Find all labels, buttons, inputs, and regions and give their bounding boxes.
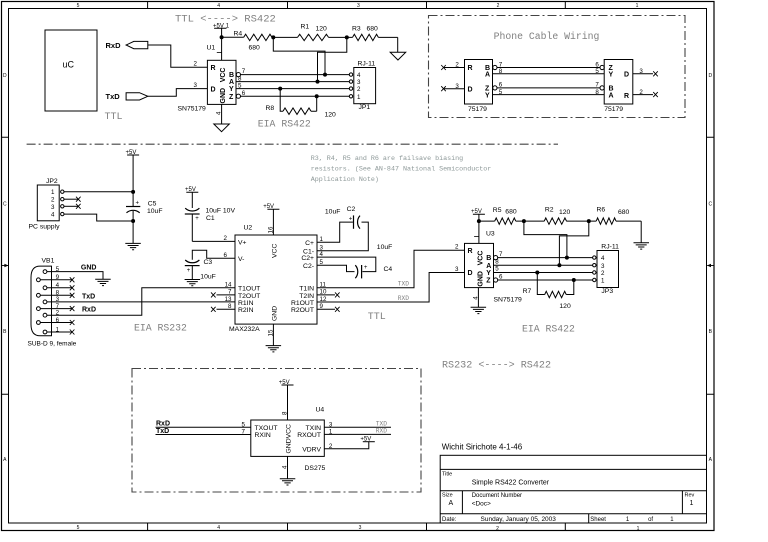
earth ground (C5) bbox=[125, 243, 141, 249]
title block bbox=[440, 455, 706, 523]
right 75179 Z bubble bbox=[600, 65, 604, 69]
svg-text:R1OUT: R1OUT bbox=[291, 300, 314, 307]
svg-text:VCC: VCC bbox=[272, 244, 279, 258]
right 75179 pin numbers bbox=[595, 61, 643, 96]
junction node C5 bottom bbox=[131, 219, 135, 223]
svg-text:2: 2 bbox=[497, 3, 500, 9]
svg-text:TXIN: TXIN bbox=[306, 425, 322, 432]
svg-text:680: 680 bbox=[367, 26, 379, 33]
U1 pin B bubble bbox=[236, 73, 240, 77]
svg-text:120: 120 bbox=[325, 112, 337, 119]
svg-text:4: 4 bbox=[357, 72, 361, 79]
wire bias node to A line (U3) bbox=[559, 221, 588, 265]
junction on B line bbox=[323, 73, 327, 77]
svg-text:Y: Y bbox=[609, 72, 614, 79]
wire U2 R2IN NC bbox=[211, 307, 235, 312]
svg-text:C2: C2 bbox=[347, 206, 356, 213]
svg-text:+5V: +5V bbox=[263, 204, 274, 210]
zone ticks right bbox=[707, 137, 714, 394]
svg-text:R1: R1 bbox=[301, 24, 310, 31]
zone ticks top bbox=[148, 2, 566, 9]
svg-text:R2: R2 bbox=[545, 207, 554, 214]
capacitor C2 bbox=[325, 206, 360, 229]
wire JP2 pin4 to C5 bottom node bbox=[64, 214, 133, 221]
wire stub R out with NC x bbox=[633, 92, 658, 97]
svg-text:1: 1 bbox=[690, 500, 694, 507]
svg-text:C+: C+ bbox=[305, 240, 314, 247]
connector VB1 SUB-D9 female bbox=[28, 266, 77, 347]
+5V power symbol (C5 rail) bbox=[126, 150, 140, 192]
uC block bbox=[45, 30, 97, 111]
resistor R6 bbox=[589, 207, 641, 225]
wire stub D out with NC x bbox=[633, 71, 658, 76]
svg-text:Wichit Sirichote 4-1-46: Wichit Sirichote 4-1-46 bbox=[442, 443, 523, 452]
svg-text:RxD: RxD bbox=[106, 41, 122, 50]
U3 pin Z bubble bbox=[494, 278, 498, 282]
svg-text:GND: GND bbox=[81, 265, 97, 272]
svg-text:2: 2 bbox=[639, 89, 643, 96]
svg-text:EIA RS422: EIA RS422 bbox=[522, 324, 575, 335]
svg-text:U3: U3 bbox=[486, 231, 495, 238]
wire U3 Y to JP3 pin2 bbox=[494, 272, 593, 274]
wire JP2 pin2 NC bbox=[64, 197, 81, 202]
resistor R7 bbox=[523, 273, 574, 311]
left 75179 Z bubble bbox=[493, 86, 497, 90]
svg-text:B: B bbox=[486, 255, 491, 262]
svg-text:Y: Y bbox=[486, 270, 491, 277]
svg-text:Sheet: Sheet bbox=[590, 517, 606, 523]
wire uC TxD to U1 pin3 bbox=[148, 89, 208, 97]
svg-text:+5V: +5V bbox=[279, 380, 290, 386]
wire VB1 pin3 TxD to U2 R1IN bbox=[47, 301, 235, 303]
RxD port arrow bbox=[126, 41, 148, 48]
+5V power symbol (U4 VCC) bbox=[279, 380, 294, 420]
svg-text:680: 680 bbox=[618, 209, 630, 216]
svg-text:R: R bbox=[211, 65, 216, 72]
svg-text:680: 680 bbox=[249, 45, 261, 52]
wire U4 TXIN right (TXD) bbox=[324, 426, 391, 428]
svg-text:13: 13 bbox=[225, 296, 232, 303]
svg-text:R2OUT: R2OUT bbox=[291, 307, 314, 314]
wire VB1 pin8 NC bbox=[40, 293, 74, 298]
svg-text:TxD: TxD bbox=[106, 92, 121, 101]
svg-text:T2IN: T2IN bbox=[299, 293, 314, 300]
capacitor C2 loop wiring bbox=[317, 222, 368, 251]
svg-text:SN75179: SN75179 bbox=[178, 106, 207, 113]
svg-text:A: A bbox=[229, 79, 234, 86]
svg-text:5: 5 bbox=[77, 525, 80, 531]
connector JP3 RJ-11 bbox=[593, 243, 620, 295]
DS275 dashed box bbox=[132, 369, 421, 493]
junction R7 on Z line bbox=[572, 278, 576, 282]
svg-text:MAX232A: MAX232A bbox=[229, 326, 260, 333]
svg-text:VCC: VCC bbox=[220, 68, 227, 83]
svg-text:RJ-11: RJ-11 bbox=[601, 243, 619, 250]
svg-text:U1: U1 bbox=[207, 45, 216, 52]
+5V power symbol (VDRV) bbox=[360, 437, 374, 443]
svg-text:+5V: +5V bbox=[360, 437, 371, 443]
connector JP2 bbox=[29, 178, 65, 231]
svg-text:+: + bbox=[195, 216, 199, 222]
centering arrow left bbox=[2, 264, 9, 268]
svg-text:A: A bbox=[485, 72, 490, 79]
svg-text:R3, R4, R5 and R6 are failsave: R3, R4, R5 and R6 are failsave biasing bbox=[311, 155, 464, 163]
svg-text:+: + bbox=[136, 201, 140, 207]
svg-text:+5V: +5V bbox=[126, 150, 137, 156]
svg-text:TXD: TXD bbox=[398, 281, 409, 288]
svg-text:+: + bbox=[364, 265, 368, 271]
svg-text:R8: R8 bbox=[266, 105, 275, 112]
svg-text:Y: Y bbox=[485, 92, 490, 99]
wire U2 V- to C3 bbox=[192, 250, 235, 260]
svg-text:C: C bbox=[708, 202, 712, 208]
svg-text:Y: Y bbox=[229, 86, 234, 93]
svg-text:C3: C3 bbox=[204, 259, 213, 266]
MAX232A U2 body bbox=[235, 235, 317, 324]
svg-text:RXD: RXD bbox=[398, 295, 409, 302]
svg-text:D: D bbox=[3, 73, 7, 79]
svg-text:RxD: RxD bbox=[156, 420, 170, 427]
svg-text:Sunday, January 05, 2003: Sunday, January 05, 2003 bbox=[481, 516, 557, 523]
wire U2 R2OUT NC bbox=[317, 307, 340, 312]
svg-text:RxD: RxD bbox=[82, 307, 96, 314]
svg-text:+: + bbox=[349, 217, 353, 223]
wire uC RxD to U1 pin2 bbox=[148, 45, 208, 67]
earth ground (U2) bbox=[266, 346, 282, 352]
svg-text:EIA RS422: EIA RS422 bbox=[258, 119, 311, 130]
svg-text:3: 3 bbox=[357, 79, 361, 86]
capacitor C1 bbox=[185, 208, 236, 242]
svg-text:Z: Z bbox=[486, 278, 491, 285]
left 75179 B bubble bbox=[493, 65, 497, 69]
connector JP1 RJ-11 bbox=[349, 60, 375, 111]
svg-text:2: 2 bbox=[194, 61, 198, 68]
svg-text:Application Note): Application Note) bbox=[311, 176, 379, 184]
svg-text:Size: Size bbox=[442, 493, 453, 499]
zone ticks bottom bbox=[148, 523, 566, 531]
node R2/R6 bbox=[587, 219, 591, 223]
svg-text:RXOUT: RXOUT bbox=[297, 432, 321, 439]
wire +5V rail to R5 bbox=[479, 220, 495, 222]
resistor R1 bbox=[273, 24, 347, 41]
svg-text:VB1: VB1 bbox=[42, 258, 55, 265]
+5V power symbol (U2 VCC) bbox=[263, 204, 279, 235]
wire U3 A to JP3 pin3 bbox=[494, 264, 593, 266]
svg-text:3: 3 bbox=[51, 204, 55, 211]
wire stub D with NC x bbox=[441, 86, 464, 91]
svg-text:JP3: JP3 bbox=[601, 288, 613, 295]
capacitor C4 bbox=[355, 265, 392, 279]
svg-text:VDRV: VDRV bbox=[302, 447, 321, 454]
wire U1 A to JP1 pin3 bbox=[236, 81, 349, 83]
svg-text:+5V: +5V bbox=[185, 187, 196, 193]
svg-text:3: 3 bbox=[194, 82, 198, 89]
svg-text:R: R bbox=[468, 65, 473, 72]
svg-text:D: D bbox=[468, 86, 473, 93]
svg-text:6: 6 bbox=[224, 252, 228, 259]
wire U2 T2OUT NC bbox=[211, 292, 235, 297]
svg-text:A: A bbox=[449, 500, 454, 507]
wire C1 to U2 V+ bbox=[192, 240, 235, 242]
svg-text:TXD: TXD bbox=[376, 420, 387, 427]
svg-text:3: 3 bbox=[601, 263, 605, 270]
wire RxD to U4 TXOUT bbox=[156, 426, 251, 428]
wire JP2 pin3 NC bbox=[64, 204, 81, 209]
centering arrow right bbox=[707, 264, 714, 268]
svg-text:R7: R7 bbox=[523, 288, 532, 295]
svg-text:R: R bbox=[624, 93, 629, 100]
earth ground (C3) bbox=[185, 280, 201, 286]
junction node C5 top bbox=[131, 190, 135, 194]
svg-text:D: D bbox=[624, 72, 629, 79]
wire U1 Y to JP1 pin2 bbox=[236, 88, 349, 90]
svg-text:1: 1 bbox=[636, 3, 639, 9]
earth ground (VB1 GND) bbox=[95, 279, 111, 285]
junction on B line (U3) bbox=[565, 256, 569, 260]
svg-text:resistors. (See AN-847 Nationa: resistors. (See AN-847 National Semicond… bbox=[311, 166, 492, 174]
svg-text:2: 2 bbox=[51, 197, 55, 204]
U3 GND wire down bbox=[477, 288, 479, 308]
svg-text:T2OUT: T2OUT bbox=[238, 293, 260, 300]
zone ticks left bbox=[2, 137, 9, 394]
wire VB1 pin1 NC bbox=[47, 330, 75, 335]
svg-text:C: C bbox=[3, 202, 7, 208]
svg-text:C2+: C2+ bbox=[301, 255, 314, 262]
svg-text:75179: 75179 bbox=[468, 106, 487, 113]
svg-text:Date:: Date: bbox=[442, 517, 457, 523]
ground triangle (R3) bbox=[390, 52, 406, 60]
svg-text:Document Number: Document Number bbox=[472, 493, 522, 499]
svg-text:2: 2 bbox=[357, 86, 361, 93]
svg-text:RXIN: RXIN bbox=[255, 432, 271, 439]
svg-text:R5: R5 bbox=[493, 207, 502, 214]
svg-text:RJ-11: RJ-11 bbox=[358, 60, 376, 67]
svg-text:D: D bbox=[708, 73, 712, 79]
svg-text:1: 1 bbox=[51, 189, 55, 196]
resistor R5 bbox=[493, 207, 524, 224]
svg-text:680: 680 bbox=[505, 209, 517, 216]
zone numbers top bbox=[77, 3, 639, 9]
wire R6 to ground bbox=[640, 221, 642, 243]
left 75179 pin numbers bbox=[455, 61, 502, 96]
wire A to Y bbox=[493, 73, 605, 75]
earth ground (R6) bbox=[634, 243, 650, 249]
svg-text:75179: 75179 bbox=[604, 106, 623, 113]
U1 VCC pin stub (rotated 1) bbox=[217, 51, 222, 53]
svg-text:Simple RS422 Converter: Simple RS422 Converter bbox=[472, 480, 550, 487]
wire VB1 pin9 NC bbox=[40, 277, 74, 282]
zone numbers bottom bbox=[77, 525, 640, 532]
svg-text:<Doc>: <Doc> bbox=[472, 501, 491, 508]
svg-text:U2: U2 bbox=[244, 225, 253, 232]
svg-text:1: 1 bbox=[329, 429, 333, 436]
wire VB1 pin5 to ground bbox=[47, 272, 103, 280]
svg-text:EIA RS232: EIA RS232 bbox=[134, 323, 187, 334]
svg-text:120: 120 bbox=[316, 26, 328, 33]
svg-text:TTL: TTL bbox=[368, 312, 386, 323]
svg-text:4: 4 bbox=[217, 525, 220, 531]
svg-text:2: 2 bbox=[224, 235, 228, 242]
resistor R3 bbox=[347, 26, 398, 41]
svg-text:Z: Z bbox=[229, 94, 234, 101]
svg-text:R3: R3 bbox=[352, 26, 361, 33]
VB1 pin numbers bbox=[56, 266, 60, 333]
right 75179 B bubble bbox=[600, 86, 604, 90]
svg-text:10uF: 10uF bbox=[325, 209, 341, 216]
wire R3 to ground bbox=[397, 37, 399, 52]
svg-text:5: 5 bbox=[242, 421, 246, 428]
wire VB1 pin6 NC bbox=[40, 320, 74, 325]
transceiver left 75179 bbox=[465, 60, 493, 114]
svg-text:RS232 <----> RS422: RS232 <----> RS422 bbox=[442, 361, 551, 372]
svg-text:C5: C5 bbox=[148, 201, 157, 208]
svg-text:GND: GND bbox=[477, 271, 484, 287]
dash-dot separator bbox=[27, 143, 558, 145]
DS275 U4 body bbox=[251, 420, 324, 456]
zone letters left bbox=[3, 73, 7, 463]
pin numbers U2 left lower bbox=[225, 281, 232, 310]
resistor R8 bbox=[266, 89, 337, 119]
wire U1 Z to JP1 pin1 bbox=[241, 95, 350, 97]
svg-text:uC: uC bbox=[63, 60, 75, 70]
wire VB1 pin7 NC bbox=[40, 306, 74, 311]
U3 pin B bubble bbox=[494, 256, 498, 260]
U4 GND wire down bbox=[287, 456, 289, 478]
op-amp U1 SN75179 body bbox=[207, 60, 236, 104]
svg-text:SN75179: SN75179 bbox=[494, 297, 523, 304]
transceiver U3 SN75179 body bbox=[465, 243, 494, 287]
svg-text:1: 1 bbox=[637, 526, 640, 532]
svg-text:2: 2 bbox=[496, 526, 499, 532]
svg-text:DS275: DS275 bbox=[305, 465, 326, 472]
svg-text:120: 120 bbox=[559, 209, 571, 216]
svg-text:5: 5 bbox=[77, 3, 80, 9]
svg-text:of: of bbox=[648, 517, 653, 523]
junction node +5V/R4 bbox=[220, 35, 224, 39]
wire Y to A bbox=[493, 94, 605, 96]
svg-text:C4: C4 bbox=[384, 266, 393, 273]
svg-text:Rev: Rev bbox=[685, 493, 695, 499]
svg-text:GND: GND bbox=[220, 88, 227, 104]
svg-text:TxD: TxD bbox=[156, 428, 169, 435]
svg-text:2: 2 bbox=[329, 443, 333, 450]
svg-text:16: 16 bbox=[267, 226, 274, 233]
Phone Cable Wiring dashed box bbox=[429, 16, 686, 118]
svg-text:10uF: 10uF bbox=[147, 208, 163, 215]
svg-text:2: 2 bbox=[455, 244, 459, 251]
svg-text:4: 4 bbox=[217, 3, 220, 9]
svg-text:5: 5 bbox=[495, 266, 499, 273]
wire U2 R1OUT to U3 D (RXD) bbox=[317, 273, 465, 303]
svg-text:T1IN: T1IN bbox=[299, 286, 314, 293]
svg-text:1: 1 bbox=[601, 278, 605, 285]
junction on A line bbox=[316, 80, 320, 84]
svg-text:10uF 10V: 10uF 10V bbox=[206, 208, 236, 215]
U1 pin Z bubble bbox=[236, 94, 240, 98]
svg-text:R1IN: R1IN bbox=[238, 300, 254, 307]
svg-text:120: 120 bbox=[559, 303, 571, 310]
wire U2 T1IN to U3 R (TXD) bbox=[317, 250, 465, 288]
svg-text:1: 1 bbox=[357, 94, 361, 101]
svg-text:TxD: TxD bbox=[82, 293, 95, 300]
ground triangle (U1) bbox=[214, 124, 230, 132]
svg-text:B: B bbox=[229, 72, 234, 79]
+5V power symbol (U3 rail) bbox=[471, 209, 485, 243]
wire VB1 pin4 NC bbox=[47, 285, 75, 290]
U2 GND wire down bbox=[272, 324, 274, 346]
svg-text:C2-: C2- bbox=[303, 263, 314, 270]
pin numbers U2 right bbox=[320, 236, 327, 310]
svg-text:PC supply: PC supply bbox=[29, 224, 61, 231]
svg-text:R2IN: R2IN bbox=[238, 307, 254, 314]
svg-text:GNDVCC: GNDVCC bbox=[285, 424, 292, 454]
svg-text:V+: V+ bbox=[238, 239, 247, 246]
svg-text:10uF: 10uF bbox=[377, 244, 393, 251]
wire TxD to U4 RXIN bbox=[156, 434, 251, 436]
svg-text:SUB-D 9, female: SUB-D 9, female bbox=[28, 341, 77, 348]
svg-text:2: 2 bbox=[601, 270, 605, 277]
svg-text:8: 8 bbox=[495, 258, 499, 265]
wire VB1 pin2 RxD to U2 T1OUT bbox=[47, 288, 235, 315]
svg-text:3: 3 bbox=[359, 525, 362, 531]
svg-text:10uF: 10uF bbox=[200, 274, 216, 281]
svg-text:4: 4 bbox=[51, 212, 55, 219]
svg-text:D: D bbox=[211, 86, 216, 93]
svg-text:V-: V- bbox=[238, 256, 244, 263]
wire Z to B bbox=[497, 87, 600, 89]
svg-text:3: 3 bbox=[357, 3, 360, 9]
wire U1 GND down bbox=[221, 104, 223, 124]
svg-text:R6: R6 bbox=[597, 207, 606, 214]
earth ground (U4) bbox=[280, 479, 296, 485]
+5V power symbol (C1) bbox=[185, 187, 198, 208]
svg-text:3: 3 bbox=[455, 266, 459, 273]
svg-text:U4: U4 bbox=[316, 407, 325, 414]
junction R8 on Y line bbox=[278, 87, 282, 91]
wire U2 T2IN NC bbox=[317, 292, 340, 297]
svg-text:8: 8 bbox=[281, 411, 288, 415]
capacitor C4 loop wiring bbox=[317, 257, 376, 272]
svg-text:C1: C1 bbox=[206, 215, 215, 222]
junction R8 on Z line bbox=[315, 94, 319, 98]
svg-text:14: 14 bbox=[225, 281, 232, 288]
wire C5 to ground bbox=[132, 221, 134, 243]
junction R7 on Y line bbox=[535, 271, 539, 275]
capacitor C3 bbox=[185, 259, 216, 281]
wire U1 B to JP1 pin4 bbox=[241, 74, 350, 76]
wire +5V to U1 VCC bbox=[221, 37, 223, 60]
wire U3 Z to JP3 pin1 bbox=[498, 279, 593, 281]
TxD port arrow bbox=[126, 93, 148, 100]
svg-text:7: 7 bbox=[242, 429, 246, 436]
resistor R2 bbox=[524, 207, 589, 225]
wire B to Z bbox=[497, 67, 600, 69]
svg-text:GND: GND bbox=[272, 306, 279, 321]
capacitor C5 bbox=[126, 192, 163, 221]
resistor R4 bbox=[222, 31, 274, 52]
svg-text:R4: R4 bbox=[234, 31, 243, 38]
svg-text:JP1: JP1 bbox=[359, 104, 371, 111]
pin numbers U3 right bbox=[495, 251, 503, 280]
svg-text:VCC: VCC bbox=[477, 251, 484, 266]
node R1/R3 bbox=[345, 35, 349, 39]
+5V power symbol (U1) bbox=[213, 23, 230, 37]
svg-text:Phone Cable Wiring: Phone Cable Wiring bbox=[494, 31, 600, 42]
node R4/R1 bbox=[271, 35, 275, 39]
svg-text:4: 4 bbox=[472, 296, 479, 300]
wire bias node to B line bbox=[273, 37, 325, 74]
junction on A line (U3) bbox=[557, 263, 561, 267]
